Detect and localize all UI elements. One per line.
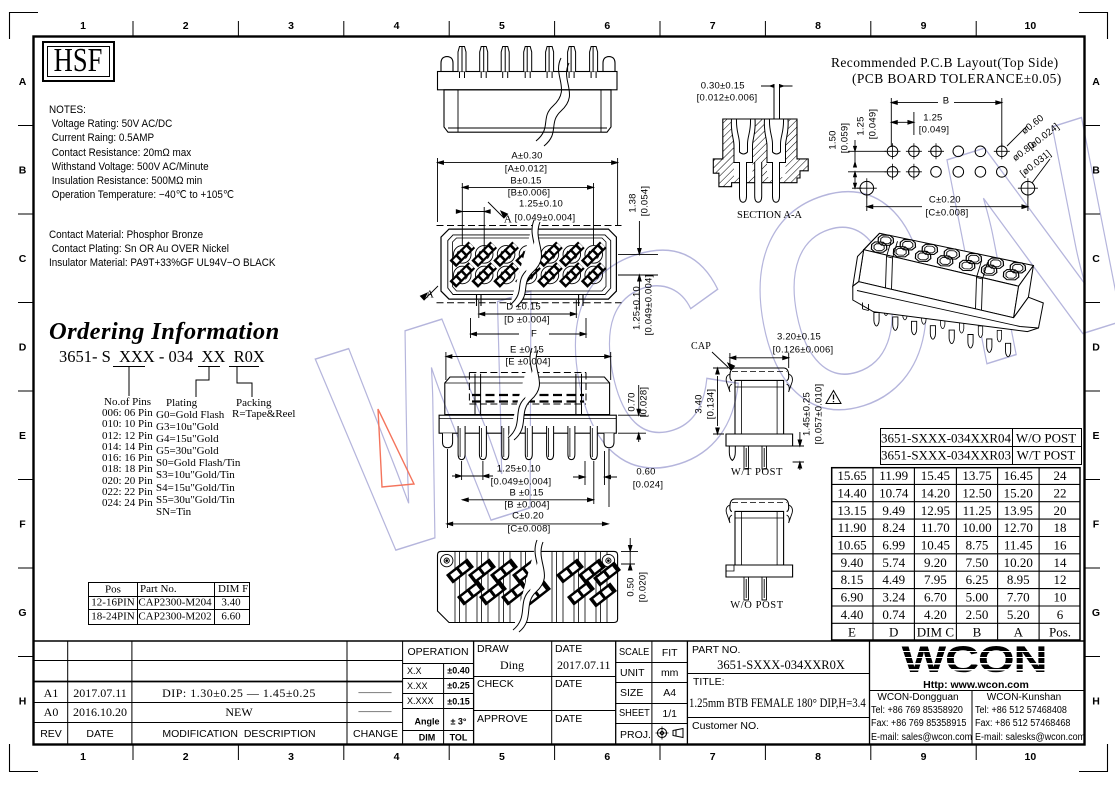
pins below [740,162,780,202]
3.40 dim [713,368,804,470]
cap [726,368,793,469]
svg-text:10.00: 10.00 [962,520,991,535]
top face [864,233,1034,286]
projection symbol [655,726,685,740]
pins [458,47,598,79]
svg-text:6.25: 6.25 [966,572,989,587]
svg-text:5.74: 5.74 [882,555,905,570]
flange [439,415,616,433]
section arrow top [488,202,504,218]
svg-text:16.45: 16.45 [1004,468,1033,483]
svg-text:15.45: 15.45 [921,468,950,483]
scale col [619,647,649,658]
right dims 0.70 [618,385,646,442]
svg-text:4.20: 4.20 [924,607,947,622]
dim A [438,158,618,226]
svg-text:4.49: 4.49 [882,572,905,587]
left row dims [848,151,886,188]
mounting holes [441,554,615,566]
watermark red triangle [378,409,414,487]
svg-text:6.90: 6.90 [841,590,864,605]
bullet post [729,446,735,461]
dim E [446,352,611,380]
bottom view [435,538,647,630]
svg-text:13.75: 13.75 [962,468,991,483]
part no block [687,674,869,718]
clips [726,374,732,392]
isometric 3D view [845,225,1050,360]
svg-text:14: 14 [1054,555,1068,570]
svg-text:22: 22 [1054,485,1067,500]
dim B line [891,98,1002,147]
dashed mating outline [437,226,622,303]
wcon contacts [877,693,958,703]
right dims 1.38 [618,221,658,310]
svg-text:6.99: 6.99 [882,538,905,553]
WCON logo [902,642,1047,679]
svg-text:A: A [1014,624,1024,639]
flange [438,72,618,90]
svg-text:11.70: 11.70 [921,520,950,535]
svg-text:12.95: 12.95 [921,503,950,518]
svg-text:12.70: 12.70 [1004,520,1033,535]
svg-text:16: 16 [1054,538,1068,553]
svg-text:10.20: 10.20 [1004,555,1033,570]
section arrow bottom [424,286,438,300]
svg-text:6.70: 6.70 [924,590,947,605]
ordering part number [59,349,265,366]
top view with contacts and dims [412,150,668,346]
svg-text:12: 12 [1054,572,1067,587]
operation block texts [407,646,468,657]
Ordering Information heading [49,320,280,345]
right end face [1014,266,1034,318]
part number variant table [880,428,1082,465]
hatched body [713,119,808,187]
break squiggle [510,220,541,307]
svg-text:9.20: 9.20 [924,555,947,570]
0.30 dim [770,85,784,87]
PCB layout heading [831,56,1059,70]
body outline [441,229,616,299]
section A-A [692,76,817,226]
dims below [447,385,646,528]
materials text block [49,229,276,271]
svg-text:10.45: 10.45 [921,538,950,553]
svg-text:5.20: 5.20 [1007,607,1030,622]
Plating list [166,398,197,409]
right post bump [603,57,615,72]
svg-text:20: 20 [1054,503,1067,518]
svg-text:11.25: 11.25 [963,503,992,518]
body upper [439,374,616,434]
svg-text:15.20: 15.20 [1004,485,1033,500]
svg-text:9.40: 9.40 [841,555,864,570]
dim B [462,183,593,245]
svg-text:9.49: 9.49 [882,503,905,518]
dim texts for top view [511,151,542,161]
svg-text:7.95: 7.95 [924,572,947,587]
scale/unit/size/sheet/proj [616,641,688,745]
svg-text:B: B [973,624,982,639]
No.of Pins list [104,397,151,408]
part no block [692,645,740,656]
svg-text:2.50: 2.50 [966,607,989,622]
svg-text:12.50: 12.50 [962,485,991,500]
revision table texts [44,687,59,699]
dim C [867,195,1028,211]
back pins row [884,304,1002,342]
PCB dim texts [943,97,950,107]
break squiggle [513,540,544,632]
svg-text:11.99: 11.99 [879,468,908,483]
1.45 dim [793,432,804,470]
svg-text:11.45: 11.45 [1004,538,1033,553]
svg-text:7.50: 7.50 [966,555,989,570]
front pins row [874,313,1011,357]
CAP leader [712,352,731,370]
svg-text:10: 10 [1054,590,1067,605]
pins [744,446,749,469]
Packing list [236,398,271,409]
operation block [403,663,474,745]
svg-text:8.24: 8.24 [882,520,905,535]
svg-text:13.95: 13.95 [1004,503,1033,518]
dim 1.25 [456,207,490,250]
W/T POST view [688,330,843,480]
break squiggle [508,348,539,440]
bottom posts [477,294,584,306]
Pos / Part No. table [88,582,250,625]
svg-text:8.75: 8.75 [966,538,989,553]
corner bullets [443,433,615,448]
svg-text:24: 24 [1054,468,1068,483]
dim texts for front view [510,345,544,355]
svg-text:7.70: 7.70 [1007,590,1030,605]
pin from top [761,84,793,119]
svg-text:8.95: 8.95 [1007,572,1030,587]
dim 1.25 row1 [891,112,914,135]
flange [726,434,793,446]
draw/check/approve [477,644,509,655]
svg-text:8.15: 8.15 [841,572,864,587]
slots below cavities [734,163,786,178]
draw/check/approve [474,641,616,745]
svg-text:10.74: 10.74 [879,485,909,500]
posts [475,374,582,414]
3.20 dim [730,353,789,368]
pins [458,426,597,460]
0.50 dim [621,538,638,570]
dim D [471,221,659,338]
dimension table [831,467,1081,641]
break squiggle [536,58,570,146]
front view with pins down [408,330,665,535]
svg-text:5.00: 5.00 [966,590,989,605]
grooves [886,240,988,311]
svg-text:Pos.: Pos. [1049,624,1071,639]
svg-text:0.74: 0.74 [882,607,905,622]
left slope end [853,233,880,286]
connector side view (pins up) [436,44,620,136]
front face [859,250,1019,318]
leader lines diagonal [1007,126,1050,183]
W/O POST view [688,489,843,609]
svg-text:14.20: 14.20 [921,485,950,500]
dim F [471,318,587,338]
cavity left [731,119,755,163]
notes text block [49,103,234,202]
dashed hidden [469,373,586,405]
flange [853,282,1044,332]
left post bump [441,57,453,72]
svg-text:DIM C: DIM C [917,624,954,639]
svg-text:6: 6 [1057,607,1064,622]
svg-text:4.40: 4.40 [841,607,864,622]
svg-text:18: 18 [1054,520,1067,535]
HSF logo box [42,41,115,82]
wcon block [870,691,1086,746]
PCB layout drawing [822,95,1062,220]
svg-text:3.24: 3.24 [882,590,905,605]
body faces [853,233,1044,331]
body [735,380,784,434]
top sockets [871,235,1025,280]
cavity right [764,119,788,163]
TITLE BLOCK [33,640,1085,745]
svg-text:D: D [889,624,898,639]
revision area lines [33,641,403,745]
svg-text:E: E [848,624,856,639]
0.60 dim [573,451,617,485]
warning triangle [826,391,841,404]
lower body [444,90,611,132]
